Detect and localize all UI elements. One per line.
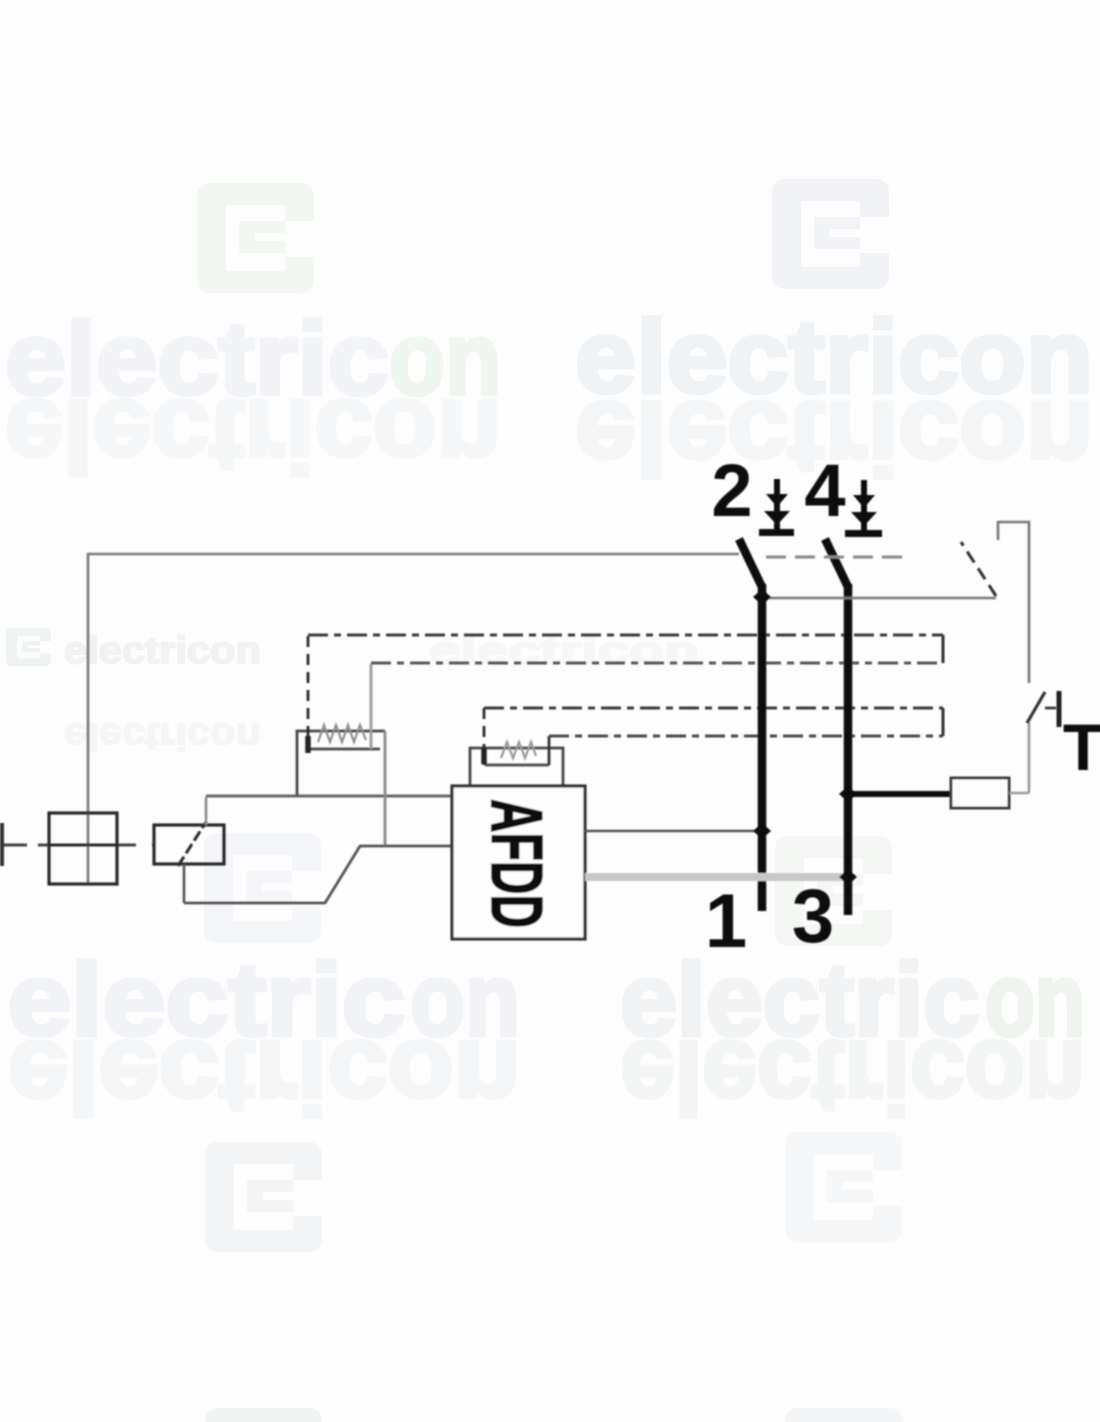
svg-text:electricon: electricon <box>8 1020 520 1135</box>
svg-text:electricon: electricon <box>5 379 501 494</box>
svg-text:electricon: electricon <box>620 1020 1085 1135</box>
svg-text:AFDD: AFDD <box>476 799 556 928</box>
svg-text:1: 1 <box>705 879 747 964</box>
svg-text:electricon: electricon <box>64 630 261 672</box>
svg-text:4: 4 <box>804 449 845 532</box>
svg-text:3: 3 <box>792 874 834 959</box>
svg-text:2: 2 <box>711 449 752 532</box>
svg-text:T: T <box>1063 710 1100 784</box>
svg-text:electricon: electricon <box>64 715 261 757</box>
